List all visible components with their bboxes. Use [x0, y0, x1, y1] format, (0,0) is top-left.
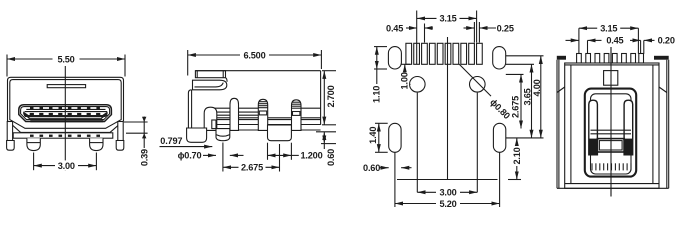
- dimension 1.200 extension lines: [267, 143, 269, 160]
- right extension line pads bottom: [506, 63, 534, 65]
- front hook bar: [193, 80, 227, 90]
- dimension 2.675 line footprint: [520, 74, 522, 128]
- hole 1 center line: [416, 11, 418, 65]
- left side flange: [7, 122, 12, 141]
- svg-text:5.20: 5.20: [439, 199, 456, 209]
- post 2: [230, 98, 239, 130]
- tongue tip block: [597, 139, 624, 152]
- dimension 4.00 line: [540, 56, 542, 138]
- svg-text:2.700: 2.700: [326, 85, 336, 107]
- dimension 1.200 line: [268, 154, 292, 156]
- contact row 2: [30, 113, 101, 116]
- dimension 2.700 extension lines: [322, 70, 336, 72]
- extension line p10 left: [476, 11, 478, 43]
- cross bars: [591, 129, 632, 131]
- center square hole: [604, 71, 618, 86]
- right top stadium pad: [493, 47, 506, 69]
- hole circle 1: [410, 77, 426, 93]
- tongue blade right tip: [101, 111, 107, 119]
- comb teeth: [591, 163, 593, 170]
- contact rails: [213, 107, 268, 109]
- dimension 0.25 arrows: [464, 27, 475, 29]
- body right edge: [320, 71, 322, 125]
- dimension 1.10 line: [376, 47, 378, 69]
- cavity opening outer: [19, 105, 112, 122]
- center line view4: [610, 47, 612, 197]
- dimension phi0.70 arrows: [203, 154, 216, 156]
- dimension 0.60 extension lines: [316, 131, 336, 133]
- dimension 0.45 arrows: [406, 27, 417, 29]
- body bottom inner line: [565, 183, 659, 185]
- dimension 6.500 line: [188, 54, 322, 56]
- svg-text:ϕ0.70: ϕ0.70: [178, 151, 202, 161]
- dimension 3.65 line: [531, 64, 533, 138]
- body top edge: [195, 70, 320, 72]
- body top inner line: [565, 64, 659, 66]
- svg-text:1.10: 1.10: [372, 86, 382, 103]
- dimension 3.00 extension lines: [33, 153, 35, 171]
- right extension line pad center: [506, 55, 544, 57]
- body inner side lines: [570, 65, 572, 184]
- dimension 0.39 extension lines: [124, 121, 148, 123]
- dimension 3.15 extension lines view4: [578, 28, 580, 54]
- dimension 2.10 line: [516, 138, 518, 180]
- right extension line bottom pad center: [506, 137, 544, 139]
- right extension line y74: [506, 73, 524, 75]
- dimension 0.20 extension lines view4: [640, 40, 642, 53]
- bottom band tick contacts: [30, 135, 100, 137]
- body bottom edge full width: [557, 187, 669, 189]
- svg-text:0.45: 0.45: [386, 23, 403, 33]
- dimension 5.20 line: [395, 203, 500, 205]
- solder pin neck: [212, 120, 216, 129]
- svg-text:3.15: 3.15: [439, 14, 456, 24]
- dimension 1.00 text: [400, 72, 409, 88]
- svg-text:1.200: 1.200: [301, 151, 323, 161]
- left top stadium pad: [388, 47, 401, 69]
- tongue blade under line: [29, 117, 103, 119]
- extension line p10 center: [478, 22, 480, 43]
- rail ticks near rear foot: [280, 125, 282, 131]
- bottom left oval pad: [389, 123, 401, 152]
- post 4 contact spring: [292, 100, 302, 131]
- left flange view4: [556, 60, 558, 189]
- dimension 0.797 leader line: [160, 146, 213, 148]
- dimension 1.00 extension lines: [401, 63, 411, 65]
- post 1: [204, 107, 217, 130]
- svg-text:3.65: 3.65: [523, 88, 533, 105]
- top-left tab: [195, 71, 225, 78]
- post 3 contact spring: [258, 99, 267, 130]
- dimension 0.60 line: [323, 132, 325, 144]
- dimension 3.00 line: [34, 165, 97, 167]
- bottom plate band: [13, 133, 113, 138]
- front face double line: [188, 90, 191, 128]
- cavity inner view4: [591, 94, 632, 174]
- shell inner outline: [10, 80, 121, 129]
- svg-text:0.60: 0.60: [326, 149, 336, 166]
- svg-text:2.10: 2.10: [512, 147, 522, 164]
- svg-text:0.60: 0.60: [363, 163, 380, 173]
- rear foot: [268, 125, 292, 141]
- svg-text:1.40: 1.40: [368, 127, 378, 144]
- top stamped slot: [47, 85, 85, 88]
- svg-text:4.00: 4.00: [532, 79, 542, 96]
- front foot: [187, 128, 207, 142]
- svg-text:2.675: 2.675: [510, 96, 520, 118]
- cavity floor dark bar: [30, 120, 103, 122]
- svg-text:3.00: 3.00: [58, 161, 75, 171]
- hole 2 center line: [476, 93, 478, 193]
- bottom pad center lines: [394, 152, 396, 207]
- svg-text:1.00: 1.00: [400, 72, 410, 89]
- dimension 2.675 line: [223, 166, 280, 168]
- svg-text:0.20: 0.20: [658, 36, 675, 46]
- svg-text:3.00: 3.00: [439, 188, 456, 198]
- smd pad row: [406, 43, 412, 64]
- dimension 3.15 line view4: [579, 27, 639, 29]
- solder pin phi0.70: [216, 129, 230, 141]
- tongue blade second line: [25, 111, 108, 113]
- extension line p9 right: [473, 22, 475, 43]
- shell outer outline: [8, 77, 124, 132]
- dimension 0.60 footprint arrows: [379, 167, 389, 169]
- tongue blade left tip: [23, 111, 29, 119]
- dimension 5.50 extension lines: [6, 55, 8, 77]
- footprint center line: [447, 37, 449, 180]
- right leg: [90, 138, 103, 150]
- contact row 1 bumps: [30, 107, 100, 110]
- svg-text:2.675: 2.675: [241, 163, 263, 173]
- dimension 3.00 footprint line: [417, 191, 477, 193]
- bottom extension line y179: [397, 179, 498, 181]
- dimension 0.45 arrows view4: [566, 39, 579, 41]
- dimension 1.10 text: [372, 84, 382, 105]
- svg-text:0.45: 0.45: [606, 36, 623, 46]
- dimension 6.500 extension lines: [187, 50, 189, 76]
- right flange view4: [666, 60, 668, 189]
- dimension 2.10 text: [512, 146, 522, 166]
- dimension 1.40 extension lines: [375, 122, 388, 124]
- right side flange: [118, 122, 123, 141]
- dimension 1.10 extension lines: [374, 46, 387, 48]
- tongue blade lower line: [24, 115, 108, 117]
- hole circle 2: [470, 77, 486, 93]
- cavity outer view4: [585, 89, 636, 177]
- left leg: [27, 138, 40, 150]
- dimension 0.45 extension line view4: [587, 40, 589, 53]
- svg-text:3.15: 3.15: [600, 24, 617, 34]
- bottom right oval pad: [493, 123, 505, 152]
- center line vertical: [64, 66, 66, 171]
- svg-text:6.500: 6.500: [244, 50, 266, 60]
- pad pitch extension line p3: [424, 24, 426, 43]
- center line view4 redraw: [610, 47, 612, 197]
- body outline view4: [565, 63, 659, 188]
- tongue blade bottom line: [25, 115, 106, 117]
- svg-text:0.39: 0.39: [140, 149, 150, 166]
- svg-text:0.797: 0.797: [160, 136, 182, 146]
- shield teeth: [577, 54, 582, 64]
- left slot: [589, 100, 598, 155]
- hole 2 diagonal leader: [459, 64, 491, 96]
- right slot: [624, 100, 633, 155]
- dimension 2.700 line: [323, 71, 325, 125]
- dimension 1.40 line: [378, 123, 380, 152]
- dimension 0.20 arrows view4: [630, 39, 641, 41]
- dimension 3.15 line: [417, 17, 477, 19]
- dimension 2.675 extension lines: [222, 143, 224, 172]
- cavity opening inner: [21, 107, 110, 120]
- dimension 0.39 line with outside arrows: [143, 117, 145, 149]
- svg-text:5.50: 5.50: [57, 54, 74, 64]
- dimension 5.50 line: [7, 58, 125, 60]
- dimension 1.00 line: [404, 64, 406, 84]
- svg-text:0.25: 0.25: [497, 23, 514, 33]
- tongue blade top line: [26, 108, 105, 110]
